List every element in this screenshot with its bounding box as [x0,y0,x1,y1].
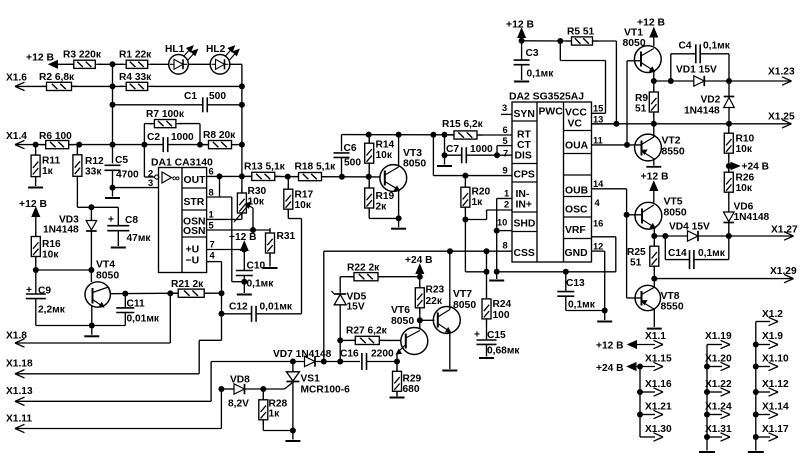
wire R2 to column [72,83,124,89]
svg-text:X1.11: X1.11 [6,414,32,425]
svg-text:10к: 10к [295,200,312,211]
svg-text:R18 5,1к: R18 5,1к [295,162,337,173]
svg-text:+U: +U [186,245,200,256]
svg-text:47мк: 47мк [127,233,152,244]
connector X1.20 [704,354,732,371]
svg-text:+12 В: +12 В [19,199,48,210]
svg-text:X1.30: X1.30 [645,424,672,435]
svg-text:IN-: IN- [516,189,530,200]
svg-text:VD7 1N4148: VD7 1N4148 [273,349,332,360]
svg-text:VT1: VT1 [624,28,643,39]
ground C3 [514,81,529,83]
svg-text:8: 8 [503,241,508,251]
svg-text:R27 6,2к: R27 6,2к [346,326,388,337]
svg-text:X1.16: X1.16 [645,379,672,390]
wire X1.27 row [651,233,687,239]
resistor R4 [119,72,154,91]
pin 11 DA2 OUA [593,136,603,146]
node +12V left [19,199,48,237]
junction R12/VD3/C8 [88,204,94,210]
pin 13 DA2 VC [593,115,603,125]
LED HL2 [206,44,239,74]
resistor R25 [627,236,659,279]
svg-text:10к: 10к [736,183,753,194]
svg-text:VT7: VT7 [453,289,472,300]
svg-text:10: 10 [497,218,507,228]
resistor R9 [635,81,658,124]
junction R3/R1/column [110,61,116,67]
svg-text:+24 В: +24 В [742,162,769,173]
ground C10 [237,294,252,296]
resistor R31 [266,228,296,267]
wire STR to C10 bottom [232,197,248,285]
svg-text:680: 680 [403,384,420,395]
svg-text:16: 16 [593,219,603,229]
resistor R11 [31,145,60,186]
connector X1.29 [651,266,797,283]
ground VS1 [285,440,300,442]
svg-text:R9: R9 [635,93,648,104]
wire CSS riser [321,251,327,364]
wire R4 to right column [151,83,245,89]
wire R13 R18 row to VT3 base [253,174,380,180]
svg-text:OSN: OSN [183,226,206,237]
diode VD4 [669,222,732,242]
capacitor C6 [334,143,362,176]
svg-text:HL2: HL2 [206,44,226,55]
svg-text:C8: C8 [125,215,138,226]
svg-text:+: + [474,330,480,341]
pin 15 DA2 VCC [593,104,603,114]
svg-text:R11: R11 [42,156,60,167]
node +24V mid [405,255,432,280]
connector X1.6 [6,73,47,91]
ground C15 [479,357,494,359]
wire VC / X1.25 row [592,121,792,127]
svg-text:VT4: VT4 [96,260,115,271]
pin 6 DA2 RT [503,125,508,135]
capacitor C1 [110,91,245,112]
svg-text:R4 33к: R4 33к [119,72,152,83]
svg-text:R5 51: R5 51 [567,27,595,38]
svg-text:VD1 15V: VD1 15V [676,65,717,76]
pin 5 DA1 OSN [207,221,270,234]
pin 1 DA1 OSN [207,210,242,220]
node +12V at pin7 [229,232,256,251]
wire rail corner to C6 [341,135,343,152]
pin 9 DA2 CPS [503,166,508,176]
wire IN- to SHD to ground [494,199,512,280]
trimmer R30 [234,176,267,230]
wire R20 node down to R24 node [465,220,489,275]
svg-text:−U: −U [186,256,200,267]
svg-text:10к: 10к [42,250,59,261]
wire top rail to R15 [342,132,455,138]
svg-text:1N4148: 1N4148 [43,225,79,236]
svg-text:X1.10: X1.10 [762,354,789,365]
svg-text:1000: 1000 [171,132,194,143]
svg-text:OUB: OUB [565,186,589,197]
svg-text:CT: CT [517,140,532,151]
IC DA2 SG3525AJ box [509,92,592,263]
capacitor C8 [91,207,151,246]
svg-text:C16: C16 [340,349,359,360]
pin 7 DA1 +U [207,240,248,253]
svg-text:8550: 8550 [661,302,684,313]
svg-text:VS1: VS1 [301,374,321,385]
node +12V top-left [26,53,74,69]
svg-text:X1.29: X1.29 [770,266,797,277]
connector X1.23 [729,67,795,86]
svg-text:8050: 8050 [453,300,476,311]
capacitor C15 [474,330,520,357]
svg-text:1к: 1к [472,197,484,208]
svg-text:3: 3 [148,178,153,188]
svg-text:VT2: VT2 [662,136,681,147]
svg-text:R10: R10 [736,134,755,145]
wire OUB pin14 riser [592,189,643,298]
svg-text:1N4148: 1N4148 [684,106,720,117]
wire HL2 to right column [230,63,242,65]
svg-text:CPS: CPS [514,170,535,181]
capacitor C13 [557,272,607,314]
diode VD7 [211,349,360,367]
pin 14 DA2 OUB [593,179,604,189]
svg-text:X1.18: X1.18 [6,359,33,370]
svg-text:1000: 1000 [470,144,493,155]
wire column2 vertical [706,345,708,451]
svg-text:VT6: VT6 [391,305,410,316]
connector X1.31 [704,424,732,441]
connector X1.16 [637,379,672,396]
svg-text:C5: C5 [115,155,128,166]
resistor R7 [144,109,200,128]
pin 4 DA1 -U [207,251,222,262]
wire ground rail y272 [494,269,616,275]
ground C5 [105,197,120,199]
svg-text:C14: C14 [668,248,687,259]
connector X1.25 [768,112,795,129]
svg-text:OUT: OUT [184,175,207,186]
svg-text:C9: C9 [38,286,51,297]
capacitor C14 [665,236,729,269]
svg-text:VD4 15V: VD4 15V [669,222,710,233]
resistor R21 [170,279,221,297]
resistor R16 [31,232,61,271]
wire CPS line [433,135,512,179]
svg-text:0,1мк: 0,1мк [698,248,726,259]
wire pin3 DA1 [110,185,159,197]
svg-text:5: 5 [503,136,508,146]
wire R20 to IN+ jog [462,210,512,223]
connector X1.4 [6,131,46,149]
svg-text:SHD: SHD [514,219,536,230]
node +24V right [726,162,769,173]
svg-text:VRF: VRF [565,225,586,236]
wire R7 right leg [197,124,203,148]
svg-text:R1 22к: R1 22к [119,50,152,61]
svg-text:10к: 10к [736,144,753,155]
wire VRF pin16 [592,237,616,272]
transistor VT4 [85,260,119,326]
connector X1.9 [753,331,783,349]
resistor R23 [415,277,444,330]
svg-text:CSS: CSS [514,248,535,259]
svg-text:PWC: PWC [539,107,564,118]
svg-text:8550: 8550 [662,147,685,158]
svg-text:4: 4 [210,251,216,261]
wire VT4 collector row [110,290,178,296]
svg-text:2к: 2к [376,202,388,213]
connector X1.8 [6,293,170,347]
pin 7 DA2 DIS [503,149,508,159]
connector X1.22 [704,379,732,396]
connector X1.1 [645,331,666,342]
resistor R28 [259,389,288,431]
svg-text:X1.22: X1.22 [705,379,732,390]
svg-text:R21 2к: R21 2к [171,279,204,290]
transistor VT5 [635,197,687,237]
svg-text:1N4148: 1N4148 [734,212,770,223]
svg-text:15V: 15V [347,302,365,313]
svg-text:R24: R24 [493,299,512,310]
svg-text:R25: R25 [627,247,646,258]
svg-text:R12: R12 [85,156,104,167]
svg-text:R8 20к: R8 20к [203,130,236,141]
svg-text:X1.8: X1.8 [6,331,27,342]
resistor R2 [39,72,78,91]
svg-text:X1.15: X1.15 [645,354,672,365]
svg-text:0,01мк: 0,01мк [260,302,293,313]
svg-text:X1.25: X1.25 [768,112,795,123]
svg-text:C2: C2 [147,132,160,143]
resistor R15 [442,119,512,139]
svg-text:X1.19: X1.19 [705,331,732,342]
pin 8 DA1 STR [207,176,232,197]
svg-text:VCC: VCC [565,108,587,119]
resistor R24 [482,251,512,340]
wire R28 bottom to VS1 cathode [263,428,296,440]
svg-text:X1.14: X1.14 [762,402,789,413]
resistor R3 [63,50,102,69]
resistor R13 [244,162,286,181]
connector X1.2 [756,309,783,326]
svg-text:+24 В: +24 В [405,255,432,266]
wire R1-HL1 [151,63,169,65]
wire R7 left leg [143,124,145,177]
resistor R27 [340,326,401,345]
transistor VT6 [391,305,428,362]
wire VCC pin15 route [560,41,605,113]
wire R5 to VC pin13 [592,41,617,124]
svg-text:4: 4 [595,198,601,208]
pin 5 DA2 CT [503,136,508,146]
transistor VT3 [380,135,426,228]
svg-text:OSC: OSC [565,205,588,216]
transistor VT1 [623,28,662,82]
svg-text:OUA: OUA [565,141,589,152]
svg-text:13: 13 [593,115,603,125]
svg-text:8: 8 [209,188,214,198]
zener VD5 [332,277,367,365]
svg-text:C13: C13 [566,278,585,289]
svg-text:0,1мк: 0,1мк [568,300,596,311]
resistor R14 [365,135,395,177]
wire column3 vertical [755,322,757,451]
svg-text:22к: 22к [426,296,443,307]
connector X1.14 [753,402,789,419]
wire R19 to emitter [369,215,401,221]
svg-text:100: 100 [493,310,510,321]
svg-text:33к: 33к [85,167,102,178]
svg-text:VD6: VD6 [734,202,754,213]
svg-text:R23: R23 [426,285,445,296]
junction VT7 base [417,317,435,323]
transistor VT7 [433,251,476,369]
svg-text:12: 12 [593,242,603,252]
svg-text:1к: 1к [269,409,281,420]
thyristor VS1 [285,359,351,431]
svg-text:11: 11 [593,136,603,146]
svg-text:3: 3 [502,103,507,113]
svg-text:2200: 2200 [371,349,394,360]
wire R3-R1 [98,63,124,65]
pin 16 DA2 VRF [593,219,603,229]
svg-text:R30: R30 [248,186,267,197]
svg-text:C12: C12 [229,302,248,313]
svg-text:500: 500 [209,91,226,102]
capacitor C16 [340,349,400,371]
capacitor C2 [141,132,209,152]
diode VD6 [724,202,770,237]
svg-text:RT: RT [517,130,532,141]
svg-text:STR: STR [184,197,205,208]
svg-text:1к: 1к [42,166,54,177]
capacitor C4 [671,41,731,82]
resistor R6 [33,131,145,149]
pin 12 DA2 GND [593,242,603,252]
ground VT8 [647,328,662,330]
op-amp DA1 CA3140 box [151,158,213,273]
svg-text:2: 2 [504,200,509,210]
capacitor C7 [442,135,501,165]
connector X1.11 [6,389,221,433]
node +12V X1.1 [596,340,663,351]
wire right column vertical HL2 to OUT [241,64,243,176]
pin 3 DA1 [148,178,153,188]
svg-text:MCR100-6: MCR100-6 [301,385,351,396]
wire VD8 to gate [245,386,285,392]
svg-text:VD8: VD8 [230,375,250,386]
svg-text:R31: R31 [277,231,296,242]
connector X1.18 [6,340,222,378]
svg-text:+12 В: +12 В [641,172,670,183]
capacitor C5 [105,155,139,188]
svg-text:+12 В: +12 В [26,53,55,64]
svg-text:51: 51 [630,258,642,269]
junction R16/C9/base [33,267,95,273]
wire column1 vertical [639,367,641,438]
node +24V X1.15 [596,362,663,374]
svg-text:8050: 8050 [96,271,119,282]
svg-text:X1.31: X1.31 [705,424,732,435]
svg-text:SYN: SYN [514,109,535,120]
svg-text:R19: R19 [376,191,395,202]
wire left column vertical [112,64,114,163]
pin 10 DA2 SHD [497,218,507,228]
svg-text:6: 6 [503,125,508,135]
svg-text:1: 1 [504,189,509,199]
svg-text:R7 100к: R7 100к [146,109,185,120]
svg-text:0,1мк: 0,1мк [527,69,555,80]
ground column3 [748,451,764,453]
svg-text:C3: C3 [526,48,539,59]
resistor R20 [461,176,491,220]
svg-text:C1: C1 [184,91,197,102]
diode VD2 [684,81,734,124]
pin 4 DA2 OSC [595,198,601,208]
ground VT4 [84,335,99,337]
svg-text:500: 500 [344,158,361,169]
svg-text:2,2мк: 2,2мк [38,305,66,316]
svg-text:0,01мк: 0,01мк [127,314,160,325]
resistor R12 [73,145,104,208]
ground C8 [111,247,126,249]
resistor R10 [724,124,754,166]
resistor R17 [284,177,314,314]
svg-text:7: 7 [503,149,508,159]
diode VD8 [218,375,250,410]
svg-text:VD2: VD2 [701,95,721,106]
resistor R18 [293,162,337,181]
wire pin4 vertical / R21 / C12 chain [219,262,225,341]
transistor VT8 [627,279,684,327]
diode VD1 [676,65,732,87]
node +12V above C3 [506,20,535,44]
wire OUA riser to VT1 base [627,61,641,145]
svg-text:8050: 8050 [403,159,426,170]
svg-text:X1.24: X1.24 [705,402,732,413]
pin 3 DA2 SYN [501,103,512,114]
svg-text:R20: R20 [472,187,491,198]
resistor R29 [393,362,422,397]
svg-text:R13 5,1к: R13 5,1к [244,162,286,173]
svg-text:HL1: HL1 [165,44,185,55]
connector X1.27 [729,225,798,241]
diode VD3 [43,207,97,282]
pin 6 DA1 OUT wire [207,167,253,180]
capacitor C3 [514,41,555,80]
resistor R1 [119,50,154,69]
svg-text:R15 6,2к: R15 6,2к [442,119,484,130]
ground VT7 [442,370,457,372]
svg-text:5: 5 [209,221,214,231]
svg-text:+24 В: +24 В [596,363,623,374]
svg-text:R3 220к: R3 220к [63,50,102,61]
ground C7 [437,165,452,167]
transistor VT2 [635,124,685,166]
wire GND pin12 [592,251,605,320]
capacitor C9 [26,270,66,326]
svg-text:15: 15 [593,104,603,114]
wire HL1-HL2 [188,63,210,65]
capacitor C10 [236,250,274,294]
svg-text:X1.23: X1.23 [768,67,795,78]
svg-text:VC: VC [568,119,583,130]
svg-text:4700: 4700 [116,170,139,181]
ground column2 [699,451,715,453]
svg-text:IN+: IN+ [516,200,532,211]
